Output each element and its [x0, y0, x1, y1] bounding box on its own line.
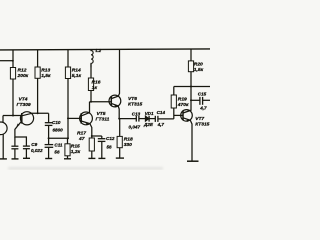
svg-text:5,1к: 5,1к [72, 73, 82, 79]
resistor R13 [35, 50, 40, 114]
svg-text:4,7: 4,7 [157, 122, 165, 127]
label VT4 [17, 97, 31, 109]
label VT7 [195, 116, 209, 128]
wire top supply rail [0, 49, 210, 50]
ground C9 [23, 157, 30, 159]
capacitor C11 [45, 145, 54, 148]
wire C12 to ground [101, 141, 103, 158]
svg-text:4,7: 4,7 [199, 105, 207, 110]
svg-text:R20: R20 [194, 62, 203, 68]
ground R15 [64, 158, 71, 160]
svg-text:VD1: VD1 [145, 111, 154, 116]
ground VT3 emitter [0, 158, 7, 160]
label C12 [106, 136, 115, 150]
svg-text:VT5: VT5 [97, 111, 106, 117]
svg-text:1,5к: 1,5к [41, 73, 51, 79]
label R12 [17, 68, 29, 80]
label R13 [41, 68, 51, 80]
label VD1 [143, 111, 154, 127]
label C13 [129, 111, 141, 129]
wire C15 out [203, 99, 210, 101]
label R14 [72, 68, 82, 80]
resistor R18 [117, 119, 122, 159]
wire C10/C11 node to base divider [49, 137, 68, 139]
svg-text:ГТ309: ГТ309 [17, 102, 31, 108]
wire C12 top lead [101, 136, 103, 139]
label R17 [77, 131, 86, 143]
label C14 [157, 110, 166, 127]
wire C9 to ground [25, 149, 27, 159]
wire base tap to VT5 [68, 117, 81, 119]
node C10-C11 tap [48, 137, 50, 139]
capacitor C10 [45, 123, 53, 126]
wire C8 to ground [14, 137, 16, 146]
wire VT5 emitter to C12 [92, 135, 102, 137]
transistor VT3 (partial, left edge) [0, 116, 7, 159]
svg-text:R12: R12 [18, 68, 27, 74]
svg-text:C14: C14 [157, 110, 166, 115]
svg-text:1,2к: 1,2к [71, 149, 81, 155]
label C15 [198, 91, 207, 110]
svg-text:ГТ311: ГТ311 [96, 117, 110, 123]
wire base lead [174, 114, 183, 116]
svg-text:C12: C12 [106, 136, 115, 141]
resistor R12 [10, 50, 15, 116]
svg-text:0,022: 0,022 [31, 148, 43, 153]
node R16 bottom [90, 101, 92, 103]
wire VD1 to C14 [149, 118, 155, 120]
wire riser to base [173, 108, 175, 119]
svg-text:C15: C15 [198, 91, 207, 96]
label R18 [124, 137, 133, 149]
wire C15 tap [191, 99, 200, 101]
wire VT5 collector to VT6 base [90, 101, 112, 103]
node C15 tap [190, 99, 192, 101]
wire VT6 emitter node to C13 [119, 118, 136, 120]
capacitor C14 [155, 116, 158, 122]
node R13 bottom [37, 112, 39, 114]
svg-text:R19: R19 [178, 97, 187, 103]
diode VD1 [145, 116, 149, 122]
capacitor C8 (emitter bypass, left) [11, 146, 18, 149]
node base tap [67, 117, 69, 119]
svg-text:470к: 470к [177, 102, 189, 108]
node emitter tap [91, 135, 93, 137]
wire R20 node down to VT7 collector [190, 87, 192, 111]
label R16 [92, 79, 101, 91]
inductor L2 [91, 50, 93, 68]
node R14-R15 junction [67, 137, 69, 139]
node R12 top junction [12, 60, 14, 62]
resistor R16 [88, 64, 93, 102]
svg-text:200к: 200к [17, 73, 29, 79]
transistor VT6 [109, 50, 121, 119]
ground C12 [98, 157, 105, 159]
label C10 [52, 120, 63, 132]
wire C10 to C11 [48, 125, 50, 144]
svg-text:Д2Е: Д2Е [143, 122, 154, 127]
wire C14 to VT7 base riser [158, 118, 174, 120]
ground R17 [88, 157, 95, 159]
svg-text:C11: C11 [54, 142, 63, 147]
svg-text:КТ315: КТ315 [195, 121, 209, 127]
resistor R15 [65, 138, 70, 159]
node R12 to base [12, 115, 14, 117]
svg-text:R17: R17 [77, 131, 86, 137]
svg-text:0,047: 0,047 [129, 124, 141, 129]
resistor R20 [188, 50, 193, 87]
capacitor C12 [98, 139, 106, 142]
transistor VT7 [181, 110, 193, 161]
svg-text:VT7: VT7 [195, 116, 204, 122]
label C9 [31, 142, 43, 153]
transistor VT4 [15, 112, 34, 146]
svg-text:R18: R18 [124, 137, 133, 143]
capacitor C13 [136, 116, 139, 122]
wire down to C10 [48, 113, 50, 122]
ground R18 [116, 157, 124, 159]
svg-text:330: 330 [124, 142, 132, 148]
svg-text:47: 47 [78, 136, 85, 142]
ground VT7 emitter [187, 160, 199, 162]
label R15 [71, 143, 81, 155]
label R19 [177, 97, 189, 109]
capacitor C15 [200, 97, 203, 105]
svg-text:1,5к: 1,5к [194, 67, 204, 73]
transistor VT5 [80, 102, 93, 138]
resistor R14 [65, 50, 70, 139]
svg-text:VT6: VT6 [128, 96, 137, 102]
ground C11 [45, 158, 52, 160]
svg-text:R16: R16 [92, 79, 101, 85]
svg-text:C10: C10 [52, 120, 61, 125]
svg-text:L2: L2 [96, 48, 102, 54]
wire C11 to ground [48, 147, 50, 158]
bottom scan smudge [8, 167, 163, 169]
label VT6 [128, 96, 142, 108]
svg-text:VT4: VT4 [19, 97, 28, 103]
wire VT4 collector output [32, 112, 49, 114]
resistor R19 [171, 87, 176, 109]
svg-text:R15: R15 [71, 143, 80, 149]
node VT6 emitter [118, 118, 120, 120]
svg-text:R13: R13 [41, 68, 50, 74]
svg-text:6800: 6800 [53, 127, 64, 132]
resistor R17 [89, 138, 94, 158]
ground C8 [12, 158, 19, 160]
svg-text:56: 56 [107, 145, 113, 150]
svg-text:R14: R14 [72, 68, 81, 74]
svg-text:КТ315: КТ315 [128, 102, 142, 108]
svg-text:C13: C13 [132, 111, 141, 116]
wire left feed into R12 top [0, 60, 13, 62]
svg-text:56: 56 [54, 149, 60, 154]
wire W3 bias rail [174, 86, 210, 88]
svg-text:1к: 1к [92, 85, 98, 91]
label R20 [194, 62, 204, 73]
wire VT3 collector to VT4 base [3, 115, 22, 117]
label VT5 [96, 111, 110, 123]
wire C13 to VD1 [139, 118, 145, 120]
capacitor C9 [23, 146, 30, 149]
svg-text:C9: C9 [31, 142, 37, 147]
node R20 bottom [190, 86, 192, 88]
label C11 [54, 142, 63, 154]
